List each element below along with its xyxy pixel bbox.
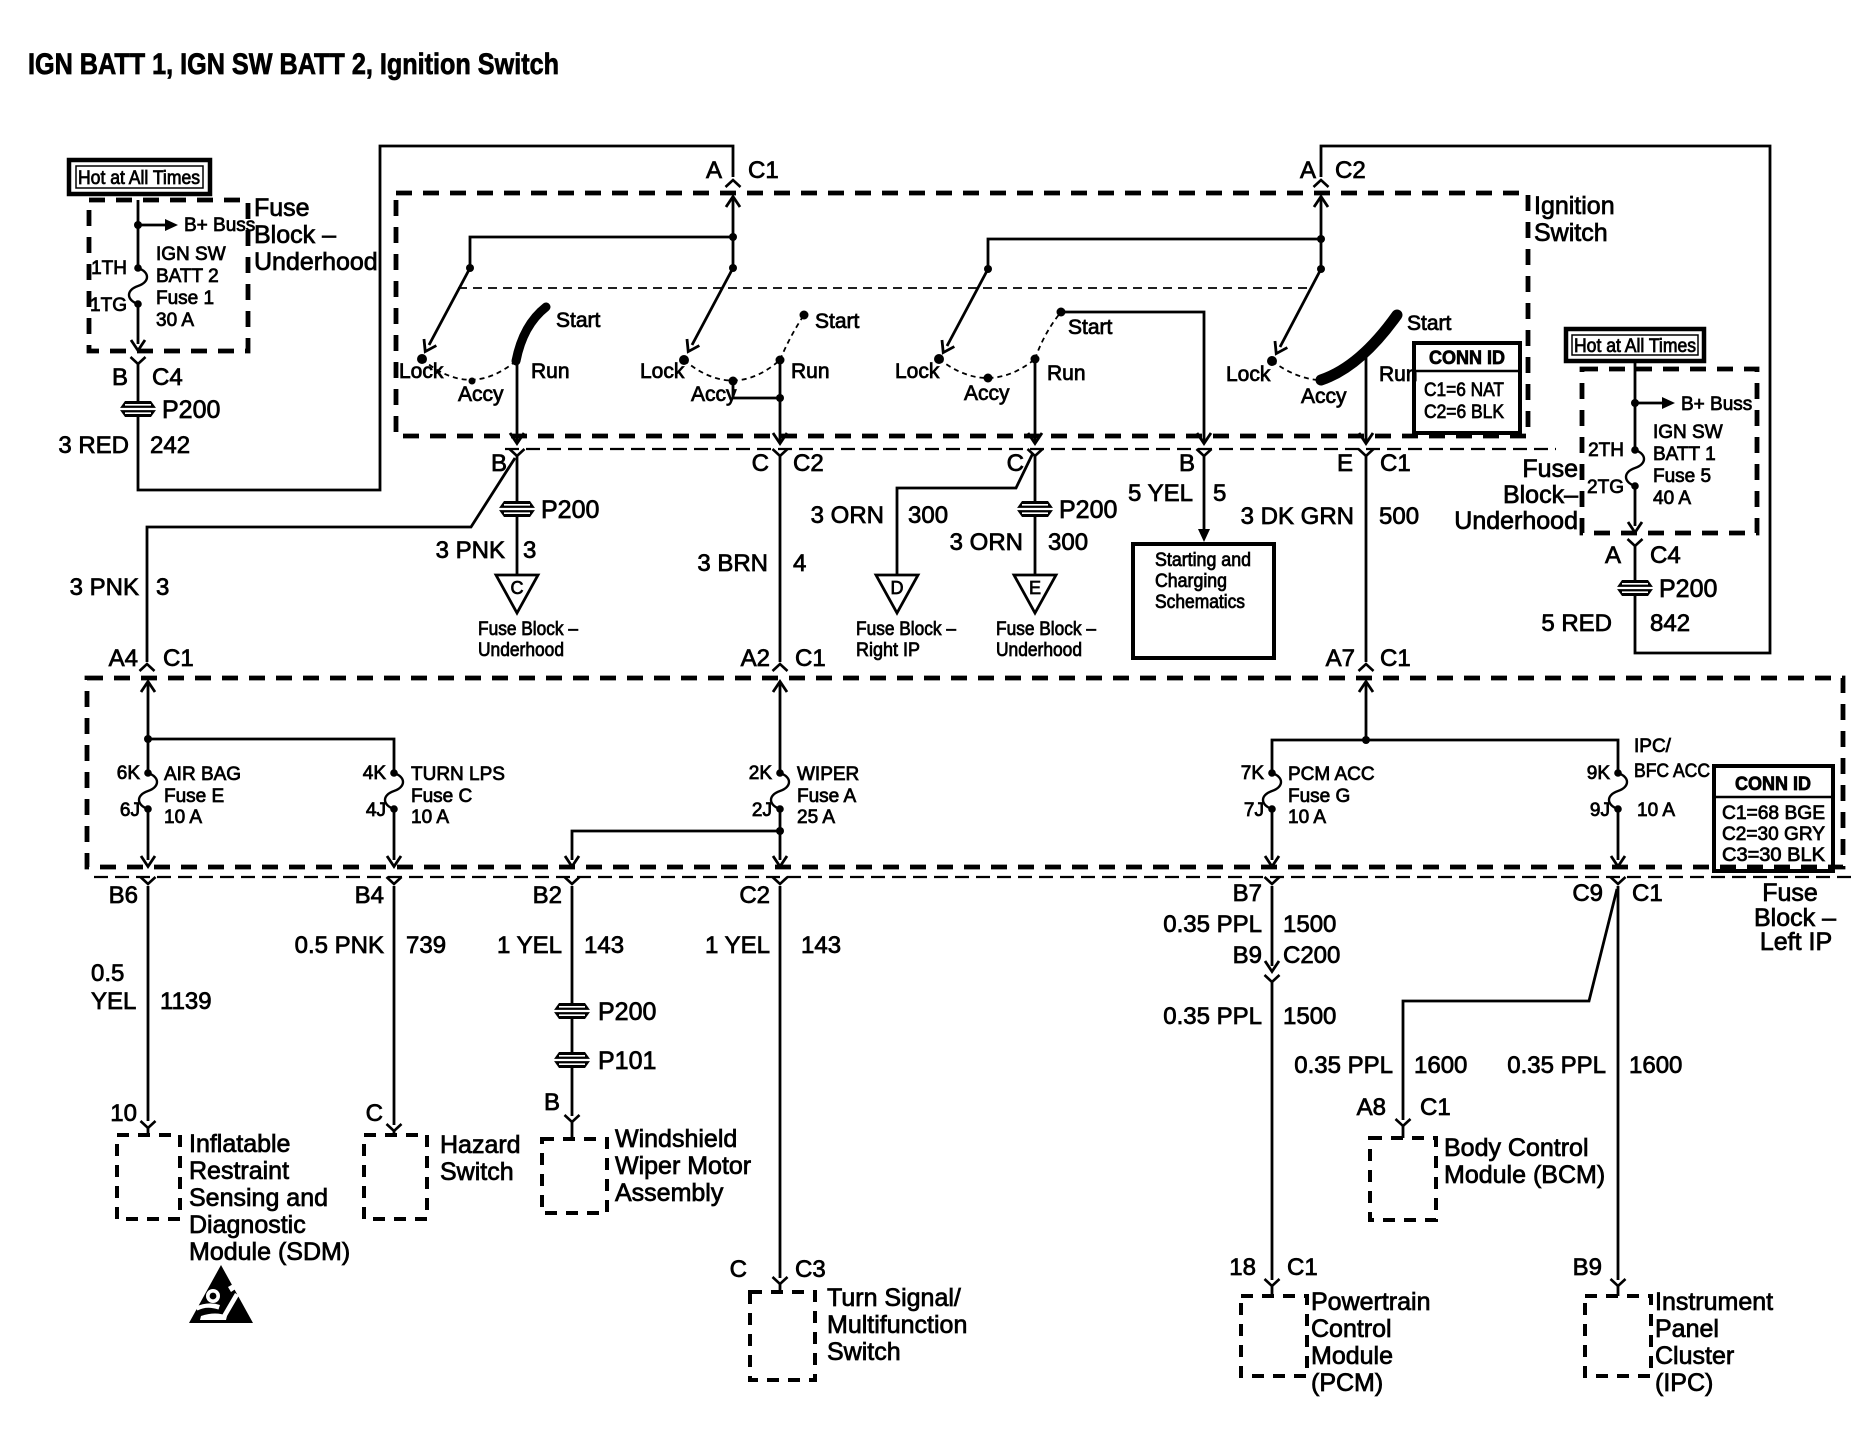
svg-text:C2: C2 xyxy=(793,450,824,477)
svg-text:Run: Run xyxy=(1047,362,1086,385)
svg-text:C1: C1 xyxy=(163,645,194,672)
svg-text:0.35 PPL: 0.35 PPL xyxy=(1163,911,1262,938)
svg-text:1600: 1600 xyxy=(1629,1052,1682,1079)
switch S4 pivot xyxy=(1317,265,1325,273)
windshield wiper motor box (dashed) xyxy=(542,1139,607,1213)
svg-text:CONN ID: CONN ID xyxy=(1429,348,1505,369)
switch S3 Run contact xyxy=(1031,355,1040,364)
svg-text:Fuse: Fuse xyxy=(1522,455,1578,483)
switch S2 Lock contact xyxy=(679,355,689,365)
wire fuse A out xyxy=(779,809,782,860)
switch S1 Accy contact xyxy=(469,378,476,385)
svg-text:Wiper Motor: Wiper Motor xyxy=(615,1152,751,1180)
svg-text:Start: Start xyxy=(1068,316,1113,339)
svg-text:P200: P200 xyxy=(162,396,220,424)
svg-text:C1: C1 xyxy=(1380,450,1411,477)
wire feed to ipc acc fuse xyxy=(1366,740,1618,773)
switch S2 blade arrow xyxy=(692,268,733,345)
fuse E AIR BAG 10A xyxy=(139,769,157,813)
mechanical linkage dashed line xyxy=(458,287,1312,289)
svg-text:C2=30 GRY: C2=30 GRY xyxy=(1722,824,1825,845)
splice P200 (3 ORN) xyxy=(1017,501,1053,517)
svg-text:Multifunction: Multifunction xyxy=(827,1311,967,1339)
svg-text:IGN SW: IGN SW xyxy=(1653,422,1723,443)
svg-text:Module (SDM): Module (SDM) xyxy=(189,1238,350,1266)
svg-text:P200: P200 xyxy=(541,496,599,524)
fuse F1 IGN SW BATT 2 30A xyxy=(129,264,147,308)
svg-text:300: 300 xyxy=(1048,529,1088,556)
connector C4 pin A xyxy=(1628,539,1643,546)
connector pin B2 xyxy=(565,877,580,884)
svg-text:Charging: Charging xyxy=(1155,571,1227,592)
IPC box (dashed) xyxy=(1585,1296,1651,1376)
svg-text:Start: Start xyxy=(815,310,860,333)
svg-text:B4: B4 xyxy=(355,882,384,909)
arrow out of left fuse block xyxy=(131,340,145,351)
svg-text:5 RED: 5 RED xyxy=(1541,610,1612,637)
fuse block left IP box (dashed) xyxy=(87,678,1843,867)
wire fuse E out xyxy=(147,809,150,860)
svg-text:Block–: Block– xyxy=(1503,481,1578,509)
node airbag/turn feed junction xyxy=(144,735,152,743)
arrow into ignition switch at A C2 xyxy=(1314,197,1328,208)
wire E C1 to A7 C1 xyxy=(1365,456,1368,662)
svg-text:Lock: Lock xyxy=(399,360,444,383)
svg-text:0.35 PPL: 0.35 PPL xyxy=(1507,1052,1606,1079)
svg-text:3 ORN: 3 ORN xyxy=(811,502,884,529)
switch S3 contact arc xyxy=(939,312,1061,378)
svg-text:Accy: Accy xyxy=(691,383,737,406)
svg-text:300: 300 xyxy=(908,502,948,529)
wire S3 Run output xyxy=(1034,359,1037,441)
connector C1 pin C9 xyxy=(1611,877,1626,884)
svg-text:Body Control: Body Control xyxy=(1444,1134,1589,1162)
svg-text:1500: 1500 xyxy=(1283,911,1336,938)
switch S1 pivot xyxy=(466,264,474,272)
svg-text:Lock: Lock xyxy=(1226,363,1271,386)
wire to splice P200 (right) xyxy=(1634,546,1637,580)
wire 1 YEL 143 (C2) xyxy=(779,886,782,1278)
svg-text:Accy: Accy xyxy=(964,382,1010,405)
svg-text:Lock: Lock xyxy=(895,360,940,383)
svg-text:143: 143 xyxy=(801,932,841,959)
svg-text:4K: 4K xyxy=(363,763,387,784)
wire feed to switch 3 xyxy=(988,239,1321,269)
svg-text:C1=6 NAT: C1=6 NAT xyxy=(1424,380,1504,401)
svg-text:Lock: Lock xyxy=(640,360,685,383)
switch S3 blade arrow xyxy=(947,269,988,346)
connector C1 pin E xyxy=(1359,449,1374,456)
fuse IPC/BFC ACC 10A xyxy=(1609,769,1627,813)
node acc feed junction xyxy=(1362,736,1370,744)
wire S2 Run output xyxy=(779,360,782,441)
switch S2 Accy contact xyxy=(729,377,738,386)
svg-text:Panel: Panel xyxy=(1655,1315,1719,1343)
svg-text:C1: C1 xyxy=(795,645,826,672)
connector pin B4 xyxy=(387,877,402,884)
svg-text:6K: 6K xyxy=(117,763,141,784)
svg-text:1500: 1500 xyxy=(1283,1003,1336,1030)
switch S1 blade arrow xyxy=(429,268,470,345)
svg-text:TURN LPS: TURN LPS xyxy=(411,764,505,785)
svg-text:A: A xyxy=(1605,542,1621,569)
svg-text:Run: Run xyxy=(1379,363,1418,386)
splice P200 (wiper) xyxy=(554,1003,590,1019)
wire feed to air bag fuse xyxy=(147,739,150,773)
svg-text:Left IP: Left IP xyxy=(1760,928,1832,956)
svg-text:Fuse E: Fuse E xyxy=(164,786,224,807)
svg-text:D: D xyxy=(891,578,904,598)
svg-text:Fuse A: Fuse A xyxy=(797,786,856,807)
svg-text:Instrument: Instrument xyxy=(1655,1288,1773,1316)
svg-text:A: A xyxy=(706,157,722,184)
svg-text:P200: P200 xyxy=(1059,496,1117,524)
svg-text:10 A: 10 A xyxy=(1637,800,1675,821)
svg-text:Start: Start xyxy=(1407,312,1452,335)
wire splice to triangle C xyxy=(516,517,519,575)
svg-text:Powertrain: Powertrain xyxy=(1311,1288,1431,1316)
switch S2 Start contact xyxy=(800,311,809,320)
svg-text:25 A: 25 A xyxy=(797,807,835,828)
svg-text:Fuse: Fuse xyxy=(1762,879,1818,907)
svg-text:Fuse G: Fuse G xyxy=(1288,786,1350,807)
svg-text:Hot at All Times: Hot at All Times xyxy=(78,168,200,189)
wire fuse C out xyxy=(393,809,396,860)
svg-text:C2=6 BLK: C2=6 BLK xyxy=(1424,402,1504,423)
conn id table (ignition switch) xyxy=(1414,343,1520,433)
svg-text:3 PNK: 3 PNK xyxy=(436,537,505,564)
svg-text:5: 5 xyxy=(1213,480,1226,507)
arrow into left IP block at A4 xyxy=(141,682,155,693)
svg-text:BATT 2: BATT 2 xyxy=(156,266,219,287)
svg-text:BATT 1: BATT 1 xyxy=(1653,444,1716,465)
switch S3 Accy contact xyxy=(984,374,993,383)
svg-text:(PCM): (PCM) xyxy=(1311,1369,1383,1397)
splice P200 (right) xyxy=(1617,580,1653,596)
svg-text:C2: C2 xyxy=(1335,157,1366,184)
svg-text:Assembly: Assembly xyxy=(615,1179,724,1207)
svg-text:C9: C9 xyxy=(1572,880,1603,907)
svg-text:Fuse 1: Fuse 1 xyxy=(156,288,214,309)
fuse G PCM ACC 10A xyxy=(1263,769,1281,813)
arrow out of right fuse block xyxy=(1628,522,1642,533)
switch S1 start blade thick arc xyxy=(516,307,546,361)
arrow into left IP block at A2 xyxy=(773,682,787,693)
switch S2 contact arc xyxy=(684,315,804,381)
svg-text:Start: Start xyxy=(556,309,601,332)
svg-text:Run: Run xyxy=(791,360,830,383)
svg-text:C: C xyxy=(511,578,524,598)
node wiper branch junction xyxy=(776,827,784,835)
svg-text:B2: B2 xyxy=(533,882,562,909)
svg-text:0.35 PPL: 0.35 PPL xyxy=(1163,1003,1262,1030)
svg-text:C4: C4 xyxy=(152,364,183,391)
svg-text:C3=30 BLK: C3=30 BLK xyxy=(1722,845,1825,866)
offpage triangle D xyxy=(876,575,918,613)
wire from hot feed to fuse 1 xyxy=(137,200,140,268)
svg-text:Underhood: Underhood xyxy=(478,640,564,661)
svg-text:C3: C3 xyxy=(795,1256,826,1283)
fuse F5 IGN SW BATT 1 40A xyxy=(1626,446,1644,490)
svg-text:10 A: 10 A xyxy=(1288,807,1326,828)
svg-text:2J: 2J xyxy=(752,800,772,821)
connector pin B (sw1 run out) xyxy=(510,449,525,456)
switch S3 Start contact xyxy=(1057,308,1066,317)
svg-text:1139: 1139 xyxy=(160,988,212,1015)
svg-text:PCM ACC: PCM ACC xyxy=(1288,764,1375,785)
ignition switch box (dashed) xyxy=(396,193,1528,436)
switch S4 Lock contact xyxy=(1267,356,1277,366)
svg-text:A2: A2 xyxy=(741,645,770,672)
switch S4 contact arc xyxy=(1272,361,1318,380)
svg-text:E: E xyxy=(1029,578,1041,598)
BCM box (dashed) xyxy=(1370,1138,1436,1220)
svg-text:842: 842 xyxy=(1650,610,1690,637)
node S2 output junction xyxy=(776,394,784,402)
svg-text:C1: C1 xyxy=(1420,1094,1451,1121)
svg-text:B+ Buss: B+ Buss xyxy=(1681,394,1752,415)
wire 5 RED 842 run to ignition switch pin A C2 xyxy=(1321,146,1770,653)
svg-text:Cluster: Cluster xyxy=(1655,1342,1734,1370)
switch S4 blade arrow xyxy=(1280,269,1321,347)
svg-text:C1: C1 xyxy=(1287,1254,1318,1281)
svg-text:1 YEL: 1 YEL xyxy=(705,932,770,959)
conn id table (left IP) xyxy=(1714,766,1833,871)
wire feed to pcm acc fuse xyxy=(1272,740,1366,773)
wire branch B to A4 C1 xyxy=(147,458,515,662)
svg-text:(IPC): (IPC) xyxy=(1655,1369,1713,1397)
hot at all times label (left) xyxy=(69,160,210,194)
B+ buss arrow (right) xyxy=(1635,402,1665,405)
svg-text:Switch: Switch xyxy=(827,1338,901,1366)
svg-text:5 YEL: 5 YEL xyxy=(1128,480,1193,507)
svg-text:3 PNK: 3 PNK xyxy=(70,574,139,601)
connector pin B7 xyxy=(1265,877,1280,884)
svg-text:Ignition: Ignition xyxy=(1534,192,1615,220)
wire feed to turn lps fuse xyxy=(148,739,394,773)
wire 0.35 PPL 1500 upper xyxy=(1271,886,1274,966)
svg-text:BFC ACC: BFC ACC xyxy=(1634,761,1710,782)
wire fuse IPC out xyxy=(1617,809,1620,860)
fuse A WIPER 25A xyxy=(771,769,789,813)
wire to splice P200 xyxy=(137,364,140,401)
wire feed to switch 4 xyxy=(1320,239,1323,269)
svg-text:B9: B9 xyxy=(1233,942,1262,969)
svg-text:Hot at All Times: Hot at All Times xyxy=(1574,336,1696,357)
connector row dashed line (left IP outputs) xyxy=(94,876,1857,878)
svg-text:Underhood: Underhood xyxy=(254,248,378,276)
svg-text:AIR BAG: AIR BAG xyxy=(164,764,241,785)
wire S3 Start output xyxy=(1061,312,1204,441)
svg-text:2TG: 2TG xyxy=(1587,477,1624,498)
svg-text:40 A: 40 A xyxy=(1653,488,1691,509)
wire hot feed to fuse 5 xyxy=(1634,362,1637,450)
connector pin C (sw3 run out) xyxy=(1028,449,1043,456)
wire C9 to BCM branch xyxy=(1403,889,1617,1120)
wire S2 accy-run tie xyxy=(733,381,780,398)
wire feed to switch 2 xyxy=(732,237,735,268)
svg-text:Fuse: Fuse xyxy=(254,194,310,222)
svg-text:C1: C1 xyxy=(1380,645,1411,672)
svg-text:B+ Buss: B+ Buss xyxy=(184,215,255,236)
switch S1 Lock contact xyxy=(417,354,427,364)
svg-text:WIPER: WIPER xyxy=(797,764,859,785)
svg-text:C4: C4 xyxy=(1650,542,1681,569)
svg-text:7K: 7K xyxy=(1241,763,1265,784)
svg-text:9J: 9J xyxy=(1590,800,1610,821)
svg-text:2K: 2K xyxy=(749,763,773,784)
wire C C2 to A2 C1 xyxy=(779,456,782,662)
svg-text:B: B xyxy=(1179,450,1195,477)
wire 5 YEL 5 xyxy=(1203,456,1206,532)
svg-text:3 DK GRN: 3 DK GRN xyxy=(1241,503,1354,530)
svg-text:242: 242 xyxy=(150,432,190,459)
svg-text:6J: 6J xyxy=(120,800,140,821)
svg-text:Starting and: Starting and xyxy=(1155,550,1251,571)
starting and charging schematics box xyxy=(1133,544,1274,658)
svg-text:Diagnostic: Diagnostic xyxy=(189,1211,306,1239)
svg-text:P200: P200 xyxy=(1659,575,1717,603)
svg-text:P101: P101 xyxy=(598,1047,656,1075)
svg-text:0.5: 0.5 xyxy=(91,960,124,987)
wire branch to B2 xyxy=(572,831,780,860)
svg-text:0.35 PPL: 0.35 PPL xyxy=(1294,1052,1393,1079)
switch S3 Lock contact xyxy=(934,354,944,364)
svg-text:Windshield: Windshield xyxy=(615,1125,737,1153)
connector row dashed line (ignition outputs) xyxy=(505,448,1556,450)
svg-text:B: B xyxy=(112,364,128,391)
svg-text:B: B xyxy=(544,1089,560,1116)
svg-text:IPC/: IPC/ xyxy=(1634,736,1672,757)
svg-text:739: 739 xyxy=(406,932,446,959)
svg-text:C: C xyxy=(752,450,769,477)
connector C4 pin B xyxy=(131,357,146,364)
svg-text:E: E xyxy=(1337,450,1353,477)
wire 3 RED 242 run to ignition switch pin A C1 xyxy=(138,146,733,490)
svg-text:A8: A8 xyxy=(1357,1094,1386,1121)
svg-text:Right IP: Right IP xyxy=(856,640,920,661)
svg-text:Fuse Block –: Fuse Block – xyxy=(856,619,956,640)
switch S2 Run contact xyxy=(776,356,785,365)
wire branch C to triangle D xyxy=(897,453,1033,575)
node feed junction sw1-sw2 xyxy=(729,233,737,241)
svg-text:YEL: YEL xyxy=(91,988,136,1015)
svg-text:Switch: Switch xyxy=(440,1158,514,1186)
splice P200 (left) xyxy=(120,401,156,417)
svg-text:Inflatable: Inflatable xyxy=(189,1130,290,1158)
svg-text:10 A: 10 A xyxy=(411,807,449,828)
svg-text:0.5 PNK: 0.5 PNK xyxy=(295,932,384,959)
PCM box (dashed) xyxy=(1241,1296,1307,1376)
wire B out to splice xyxy=(516,456,519,501)
wire fuse G out xyxy=(1271,809,1274,860)
svg-text:Fuse C: Fuse C xyxy=(411,786,472,807)
svg-text:Block –: Block – xyxy=(254,221,336,249)
svg-text:Module: Module xyxy=(1311,1342,1393,1370)
svg-text:C1: C1 xyxy=(1632,880,1663,907)
SDM box (dashed) xyxy=(117,1135,180,1219)
svg-text:3: 3 xyxy=(523,537,536,564)
connector pin B6 xyxy=(141,877,156,884)
splice P101 (wiper) xyxy=(554,1052,590,1068)
svg-text:C1=68 BGE: C1=68 BGE xyxy=(1722,803,1825,824)
wire S4 Run output xyxy=(1365,352,1368,441)
svg-text:CONN ID: CONN ID xyxy=(1735,774,1811,795)
svg-text:7J: 7J xyxy=(1244,800,1264,821)
svg-text:18: 18 xyxy=(1229,1254,1256,1281)
node feed junction sw3-sw4 xyxy=(1317,235,1325,243)
svg-text:3 BRN: 3 BRN xyxy=(697,550,768,577)
switch S2 pivot xyxy=(729,264,737,272)
svg-text:4J: 4J xyxy=(366,800,386,821)
airbag warning icon xyxy=(189,1265,253,1323)
svg-text:Underhood: Underhood xyxy=(1454,507,1578,535)
svg-text:Fuse Block –: Fuse Block – xyxy=(478,619,578,640)
switch S1 contact arc xyxy=(422,359,517,380)
svg-text:3 ORN: 3 ORN xyxy=(950,529,1023,556)
fuse block underhood box (right, dashed) xyxy=(1582,369,1757,533)
connector pin C2 xyxy=(773,877,788,884)
splice P200 (3 PNK) xyxy=(499,501,535,517)
svg-text:P200: P200 xyxy=(598,998,656,1026)
svg-text:Switch: Switch xyxy=(1534,219,1608,247)
wire S1 Run output xyxy=(516,360,519,441)
svg-text:Control: Control xyxy=(1311,1315,1392,1343)
svg-text:C1: C1 xyxy=(748,157,779,184)
offpage triangle E xyxy=(1014,575,1056,613)
svg-text:143: 143 xyxy=(584,932,624,959)
svg-text:500: 500 xyxy=(1379,503,1419,530)
arrow into left IP block at A7 xyxy=(1359,682,1373,693)
svg-text:Fuse Block –: Fuse Block – xyxy=(996,619,1096,640)
switch S3 pivot xyxy=(984,265,992,273)
connector pin B (sw3 start out) xyxy=(1197,449,1212,456)
svg-text:9K: 9K xyxy=(1587,763,1611,784)
svg-text:C: C xyxy=(730,1256,747,1283)
wire splice to triangle E xyxy=(1034,517,1037,575)
fuse block underhood box (left, dashed) xyxy=(89,200,248,351)
hot at all times label (right) xyxy=(1566,329,1704,361)
svg-text:4: 4 xyxy=(793,550,806,577)
svg-text:A4: A4 xyxy=(109,645,138,672)
offpage triangle C xyxy=(496,575,538,613)
wire 0.5 PNK 739 xyxy=(393,886,396,1125)
node B+ buss junction (right) xyxy=(1631,399,1639,407)
wire fuse 5 output xyxy=(1634,487,1637,526)
switch S4 start blade thick arc xyxy=(1321,315,1397,380)
svg-text:1TH: 1TH xyxy=(91,258,127,279)
wire 0.5 YEL 1139 xyxy=(147,886,150,1121)
svg-text:IGN BATT 1, IGN SW BATT 2, Ign: IGN BATT 1, IGN SW BATT 2, Ignition Swit… xyxy=(28,48,559,81)
svg-text:C: C xyxy=(366,1100,383,1127)
node B+ buss junction xyxy=(134,221,142,229)
svg-text:C200: C200 xyxy=(1283,942,1340,969)
svg-text:3 RED: 3 RED xyxy=(58,432,129,459)
svg-text:1TG: 1TG xyxy=(90,295,127,316)
svg-text:A: A xyxy=(1300,157,1316,184)
svg-text:C: C xyxy=(1007,450,1024,477)
svg-text:B7: B7 xyxy=(1233,880,1262,907)
svg-text:2TH: 2TH xyxy=(1588,440,1624,461)
wire fuse 1 output xyxy=(137,304,140,344)
svg-text:Hazard: Hazard xyxy=(440,1131,521,1159)
connector C2 pin C xyxy=(773,449,788,456)
svg-text:Restraint: Restraint xyxy=(189,1157,289,1185)
svg-text:Sensing and: Sensing and xyxy=(189,1184,328,1212)
svg-text:Turn Signal/: Turn Signal/ xyxy=(827,1284,961,1312)
svg-text:Schematics: Schematics xyxy=(1155,592,1245,613)
svg-text:10: 10 xyxy=(110,1100,137,1127)
